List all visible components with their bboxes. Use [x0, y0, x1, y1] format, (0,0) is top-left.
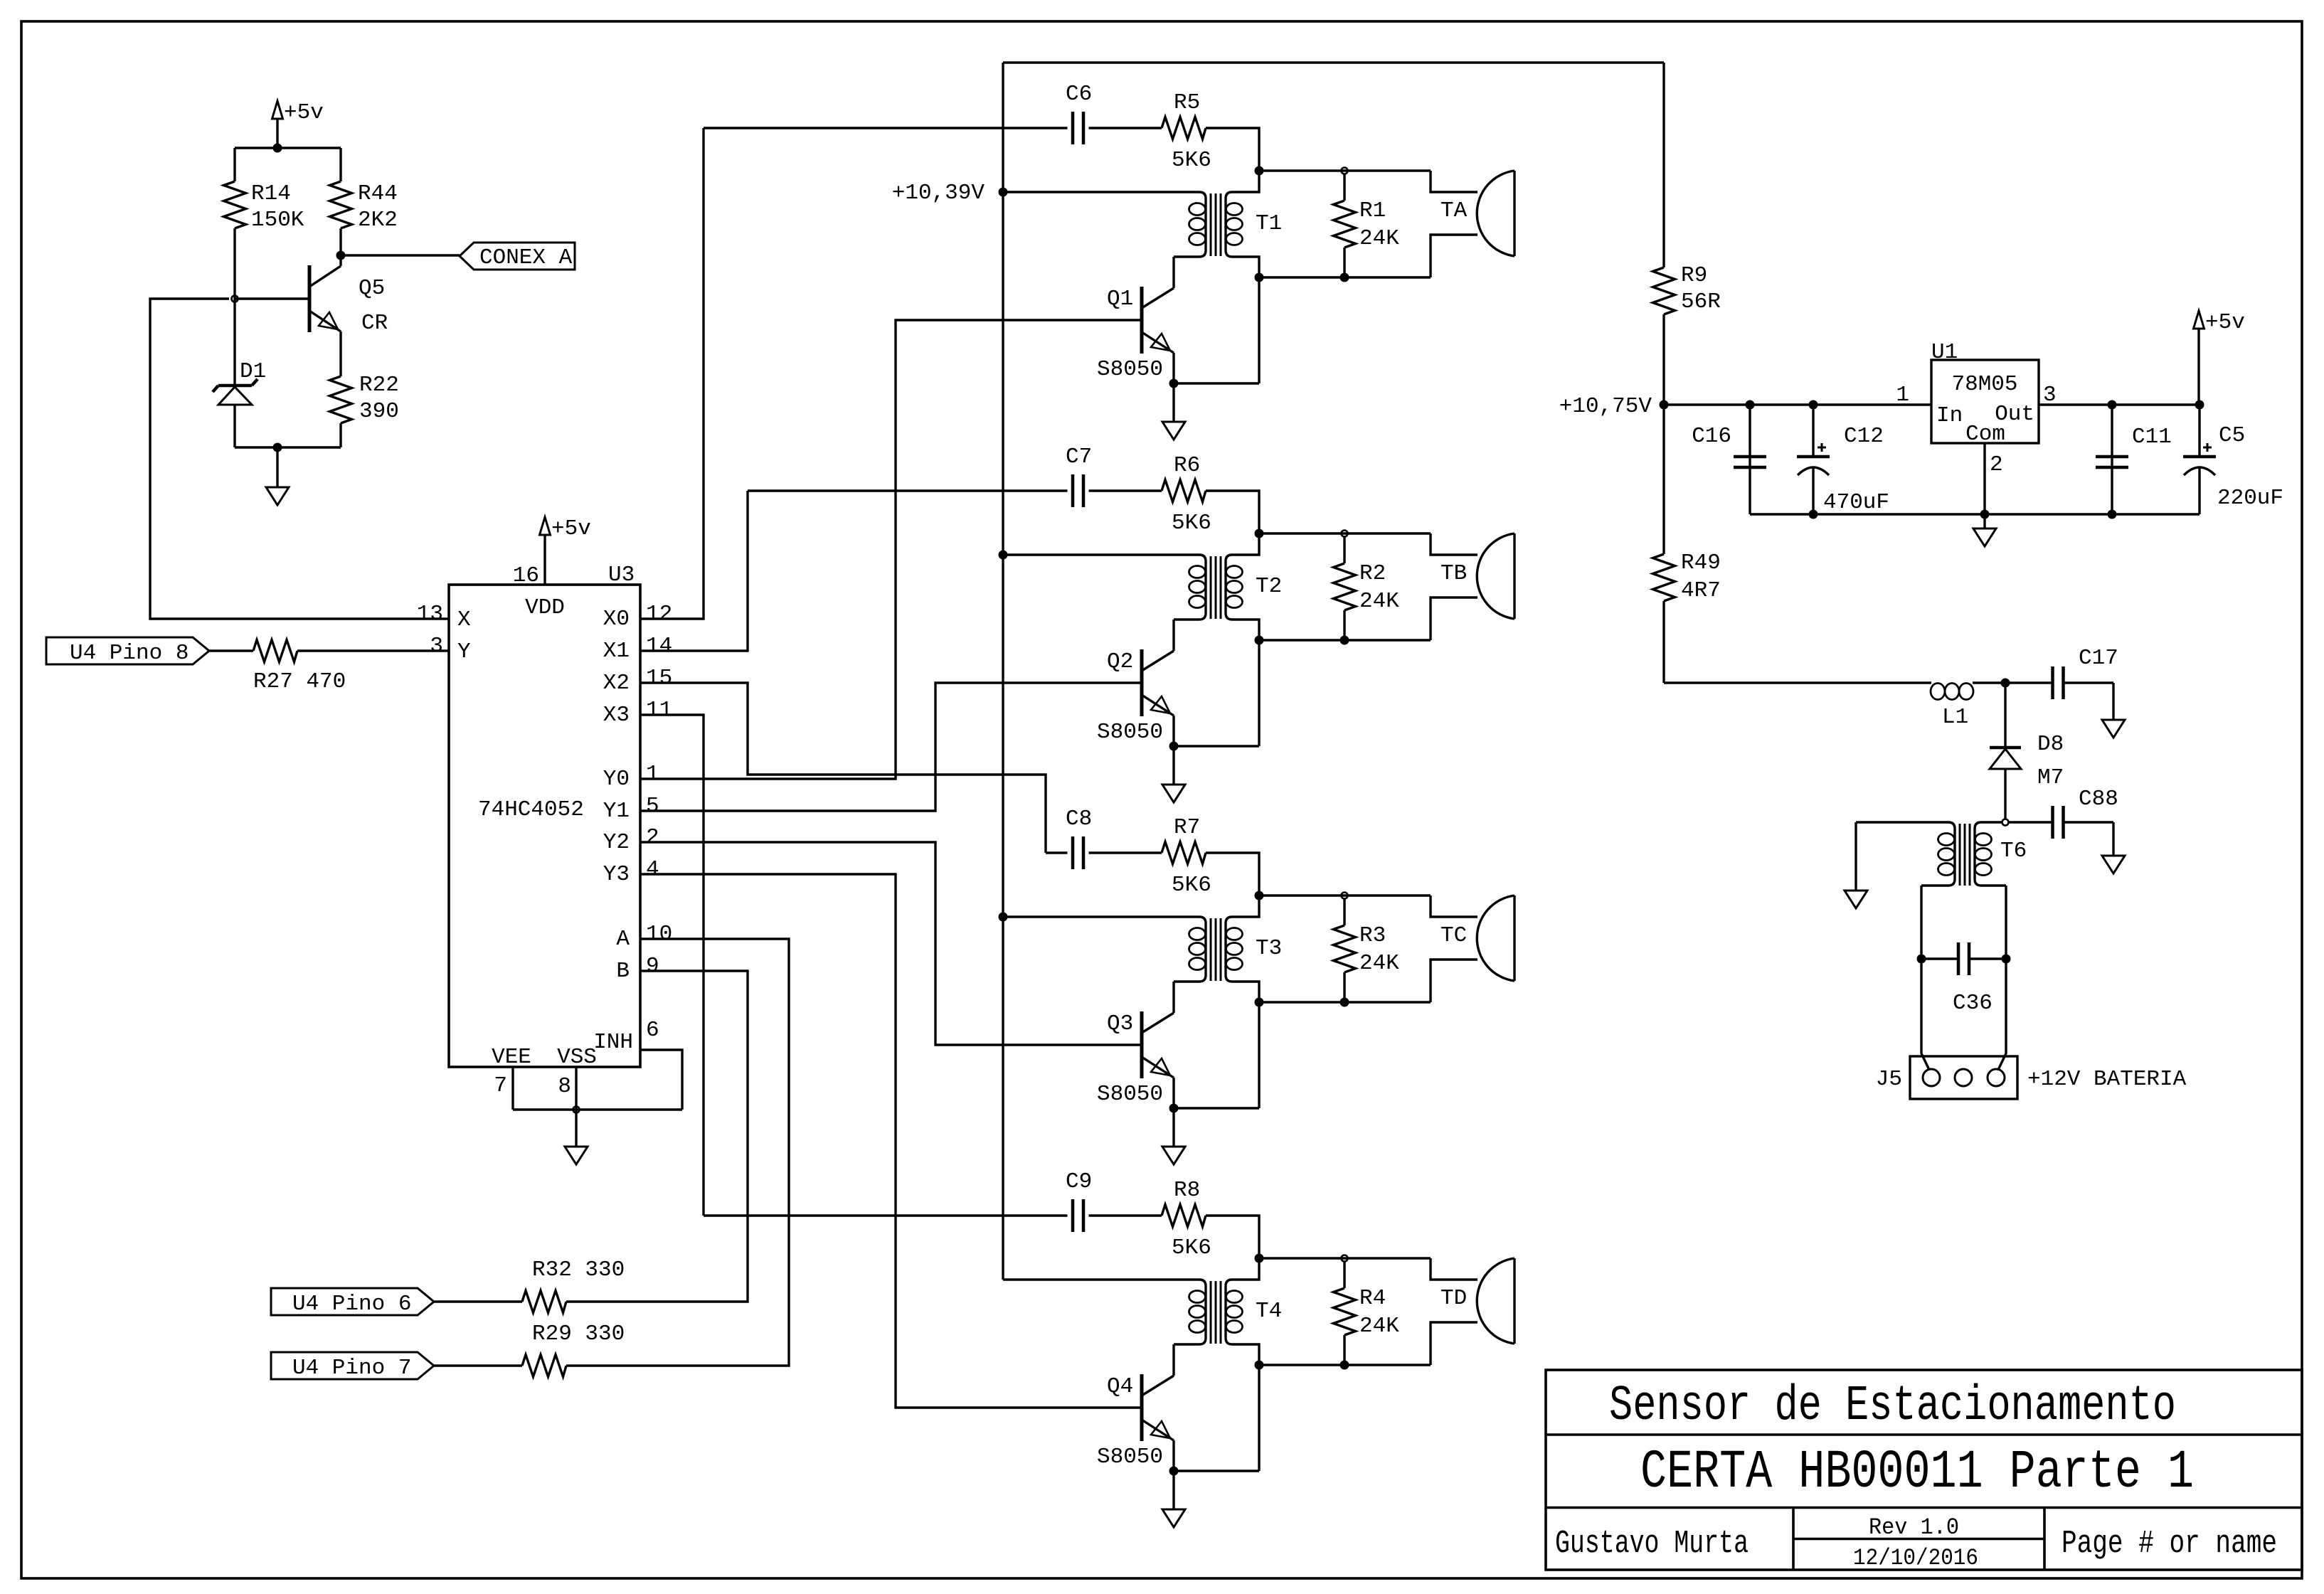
node T1 secondary top: [1255, 166, 1264, 176]
wire secondary top rail: [1259, 532, 1431, 534]
node D8/T6/C88 junction: [2002, 819, 2009, 826]
speaker TC bottom stub: [1431, 960, 1477, 1002]
wire X3 to C9: [640, 715, 704, 1216]
resistor R6 5K6: [1162, 480, 1206, 502]
transformer T2 windings loops: [1189, 566, 1206, 578]
svg-text:R9: R9: [1681, 263, 1707, 288]
svg-text:R6: R6: [1174, 453, 1200, 478]
node Com ground junction: [1980, 510, 1990, 519]
speaker TC: [1513, 896, 1515, 981]
wire base node to IC pin 13: [150, 299, 449, 619]
wire VEE-VSS-INH ground net: [513, 1108, 682, 1110]
svg-text:TC: TC: [1440, 923, 1467, 948]
svg-text:10: 10: [646, 922, 672, 947]
svg-text:A: A: [616, 927, 630, 952]
node VSS junction: [573, 1107, 580, 1113]
wire R5 to transformer: [1206, 128, 1259, 171]
wire R6 to transformer: [1206, 491, 1259, 533]
svg-text:R29 330: R29 330: [532, 1322, 625, 1346]
svg-text:Sensor de Estacionamento: Sensor de Estacionamento: [1609, 1378, 2176, 1435]
capacitor C6: [1071, 112, 1075, 144]
wire X0 to C6: [640, 128, 704, 619]
svg-text:Gustavo Murta: Gustavo Murta: [1555, 1526, 1749, 1562]
svg-text:2: 2: [1990, 452, 2003, 477]
svg-text:TD: TD: [1440, 1286, 1467, 1311]
wire bus top link to R9: [1003, 61, 1664, 63]
resistor R22 390: [339, 375, 341, 376]
svg-text:CR: CR: [361, 311, 388, 336]
zener diode D1: [233, 299, 235, 386]
svg-text:5K6: 5K6: [1172, 1236, 1211, 1260]
capacitor C5 220uF: [2198, 405, 2200, 457]
svg-text:T1: T1: [1256, 211, 1282, 236]
resistor R29 330: [522, 1355, 566, 1377]
transistor Q5 CR: [308, 265, 312, 332]
node bus T3 feed: [999, 913, 1008, 922]
wire Y3 to Q4 base: [640, 874, 1140, 1408]
node Q4 emitter junction: [1169, 1467, 1179, 1476]
svg-text:C9: C9: [1066, 1169, 1092, 1194]
resistor R32 330: [522, 1291, 566, 1313]
svg-text:74HC4052: 74HC4052: [478, 797, 584, 822]
transistor Q2 S8050: [1140, 649, 1144, 716]
ground regulator: [1983, 514, 1985, 528]
speaker TD top stub: [1431, 1258, 1477, 1280]
wire Q1 emitter rail: [1174, 382, 1259, 384]
svg-text:Y0: Y0: [603, 767, 630, 792]
capacitor C16: [1749, 405, 1751, 514]
wire ground rail: [1750, 513, 2200, 515]
svg-text:11: 11: [646, 698, 672, 723]
transformer T4 core: [1210, 1281, 1212, 1344]
node Q3 emitter junction: [1169, 1104, 1179, 1113]
svg-text:U1: U1: [1931, 340, 1958, 365]
svg-text:C11: C11: [2132, 425, 2172, 450]
svg-text:5: 5: [646, 794, 659, 819]
svg-text:VSS: VSS: [557, 1045, 597, 1070]
svg-text:470uF: 470uF: [1823, 490, 1889, 515]
wire C6 input: [704, 127, 1068, 129]
wire C7 to R6: [1089, 489, 1162, 492]
svg-text:Q1: Q1: [1107, 287, 1133, 312]
svg-text:C7: C7: [1066, 445, 1092, 469]
node R1 top junction: [1342, 168, 1348, 174]
flag U4 Pino 8: [46, 637, 209, 664]
wire +10,39V bus vertical: [1002, 63, 1004, 1280]
transistor Q3 S8050: [1140, 1011, 1144, 1078]
wire X2 to C8: [640, 683, 1046, 853]
node C12 bottom: [1809, 510, 1818, 519]
capacitor C8: [1071, 836, 1075, 869]
wire to CONEX A flag: [341, 254, 460, 256]
svg-text:C8: C8: [1066, 807, 1092, 831]
wire secondary top rail: [1259, 169, 1431, 171]
wire Y1 to Q2 base: [640, 683, 1140, 811]
node L1/D8/C17 junction: [2001, 679, 2010, 688]
wire VSS stub: [575, 1067, 577, 1110]
svg-text:15: 15: [646, 666, 672, 691]
wire R49 to L1: [1664, 681, 1931, 684]
wire regulator Com pin 2: [1983, 443, 1985, 514]
node C16 top: [1746, 400, 1755, 410]
node Q1 emitter junction: [1169, 379, 1179, 388]
svg-text:Y: Y: [457, 639, 471, 664]
wire T6 left leg: [1920, 886, 1922, 959]
wire Y0 to Q1 base: [640, 320, 1140, 779]
svg-text:R27 470: R27 470: [253, 669, 346, 694]
transformer T4 secondary winding: [1226, 1258, 1259, 1365]
svg-text:2: 2: [646, 825, 659, 850]
svg-text:R7: R7: [1174, 815, 1200, 840]
wire R27 to pin Y: [297, 649, 449, 652]
svg-text:24K: 24K: [1359, 589, 1399, 614]
wire C7 input: [748, 489, 1068, 492]
svg-text:+12V BATERIA: +12V BATERIA: [2027, 1067, 2187, 1092]
wire T6 right leg: [2005, 886, 2007, 959]
svg-text:T2: T2: [1256, 574, 1282, 599]
wire R8 to transformer: [1206, 1216, 1259, 1258]
node T3 secondary top: [1255, 891, 1264, 900]
speaker TD bottom stub: [1431, 1322, 1477, 1365]
node Q5 collector / CONEX A: [336, 251, 346, 260]
node C36 right: [2002, 955, 2011, 964]
svg-text:C12: C12: [1844, 424, 1884, 449]
svg-text:X3: X3: [603, 703, 630, 728]
svg-text:4: 4: [646, 857, 659, 882]
svg-text:R1: R1: [1359, 198, 1386, 223]
wire flag to R32: [434, 1300, 522, 1302]
resistor R2 24K: [1343, 536, 1345, 563]
svg-text:C36: C36: [1953, 991, 1993, 1016]
svg-text:Rev 1.0: Rev 1.0: [1869, 1514, 1959, 1541]
svg-text:R22: R22: [359, 373, 399, 398]
svg-text:C17: C17: [2079, 646, 2118, 671]
svg-text:13: 13: [417, 602, 443, 627]
svg-text:9: 9: [646, 954, 659, 979]
node C12 top: [1809, 400, 1818, 410]
transformer T6 secondary: [1975, 822, 2006, 886]
node bus T1 feed: [999, 188, 1008, 197]
svg-text:5K6: 5K6: [1172, 148, 1211, 173]
transformer T1 windings loops: [1189, 203, 1206, 216]
wire C8 input: [1046, 851, 1068, 854]
node +5v rail junction: [273, 144, 282, 153]
ground IC supply: [575, 1110, 577, 1147]
speaker TB: [1513, 533, 1515, 619]
svg-text:Y1: Y1: [603, 799, 630, 824]
node T3 secondary bottom: [1340, 998, 1349, 1007]
svg-text:CONEX A: CONEX A: [479, 245, 573, 270]
speaker TA: [1513, 171, 1515, 256]
svg-text:2K2: 2K2: [358, 208, 398, 233]
transformer T2 core: [1210, 556, 1212, 619]
svg-text:R32 330: R32 330: [532, 1258, 625, 1282]
capacitor C9: [1071, 1199, 1075, 1232]
node C36 left: [1917, 955, 1926, 964]
svg-text:D1: D1: [240, 359, 266, 384]
svg-text:B: B: [616, 959, 630, 984]
wire bottom rail D1/R22: [235, 446, 341, 448]
svg-text:56R: 56R: [1681, 289, 1721, 314]
svg-text:Q2: Q2: [1107, 649, 1133, 674]
resistor R27 470: [253, 640, 297, 662]
svg-text:INH: INH: [593, 1030, 633, 1055]
svg-text:R4: R4: [1359, 1286, 1386, 1311]
svg-text:S8050: S8050: [1097, 1082, 1163, 1107]
wire to J5 pin 1: [1921, 959, 1929, 1070]
resistor R44 2K2: [339, 148, 341, 181]
wire INH loop: [640, 1050, 682, 1110]
wire secondary bottom rail: [1259, 1001, 1431, 1003]
wire C9 input: [704, 1214, 1068, 1216]
power +5v VDD pin 16: [540, 517, 551, 535]
resistor R5 5K6: [1162, 117, 1206, 139]
svg-text:TB: TB: [1440, 561, 1467, 586]
ground Q1 emitter: [1172, 383, 1174, 422]
svg-text:C5: C5: [2219, 423, 2245, 448]
svg-text:78M05: 78M05: [1951, 372, 2017, 397]
power +5v (Q5 block): [272, 101, 283, 119]
svg-text:12: 12: [646, 602, 672, 627]
node R2 top junction: [1342, 531, 1348, 537]
svg-text:U4 Pino 8: U4 Pino 8: [70, 641, 189, 666]
svg-text:R14: R14: [251, 181, 291, 206]
ground T6 primary: [1855, 822, 1857, 891]
wire regulator Out to +5v: [2039, 403, 2200, 405]
capacitor C7: [1071, 474, 1075, 507]
svg-text:C6: C6: [1066, 82, 1092, 107]
svg-text:U4 Pino 6: U4 Pino 6: [292, 1292, 411, 1317]
svg-text:R44: R44: [358, 181, 398, 206]
capacitor C11: [2111, 405, 2113, 514]
wire VEE stub: [511, 1067, 514, 1110]
wire secondary bottom rail: [1259, 276, 1431, 278]
svg-text:7: 7: [494, 1073, 507, 1098]
svg-text:M7: M7: [2037, 765, 2064, 790]
wire Q2 emitter rail: [1174, 745, 1259, 747]
svg-text:CERTA HB00011 Parte 1: CERTA HB00011 Parte 1: [1640, 1442, 2194, 1503]
wire C6 to R5: [1089, 127, 1162, 129]
resistor R49 4R7: [1662, 405, 1665, 554]
svg-text:Y3: Y3: [603, 862, 630, 887]
svg-text:24K: 24K: [1359, 1314, 1399, 1339]
svg-text:D8: D8: [2037, 732, 2064, 757]
speaker TA bottom stub: [1431, 235, 1477, 277]
transformer T3 primary: [1003, 917, 1206, 982]
svg-text:5K6: 5K6: [1172, 873, 1211, 898]
svg-text:X2: X2: [603, 671, 630, 696]
svg-text:+10,39V: +10,39V: [892, 181, 985, 206]
wire Y2 to Q3 base: [640, 842, 1140, 1045]
svg-text:+10,75V: +10,75V: [1559, 394, 1652, 419]
wire +10,75V to regulator In: [1664, 403, 1931, 405]
transistor Q4 S8050: [1140, 1374, 1144, 1441]
connector J5 +12V BATERIA: [1910, 1056, 2017, 1099]
transformer T4 windings loops: [1189, 1291, 1206, 1303]
inductor L1: [1931, 684, 1945, 700]
ground C88: [2112, 822, 2114, 856]
ground below Q5 block: [276, 447, 278, 487]
svg-text:Y2: Y2: [603, 830, 630, 855]
diode D8 M7: [2004, 683, 2006, 748]
transformer T6 core: [1959, 824, 1961, 886]
transistor Q1 S8050: [1140, 287, 1144, 354]
svg-text:5K6: 5K6: [1172, 511, 1211, 536]
svg-text:16: 16: [513, 563, 539, 588]
transformer T1 primary: [1003, 192, 1206, 257]
svg-text:C88: C88: [2079, 787, 2118, 812]
transformer T1 secondary winding: [1226, 171, 1259, 277]
svg-text:VDD: VDD: [525, 595, 565, 620]
node bus T2 feed: [999, 551, 1008, 560]
title block outline: [1546, 1370, 2302, 1570]
svg-text:S8050: S8050: [1097, 1445, 1163, 1470]
svg-text:T6: T6: [2000, 839, 2027, 864]
svg-text:+5v: +5v: [284, 100, 324, 125]
svg-text:L1: L1: [1942, 705, 1968, 730]
flag U4 Pino 6: [271, 1288, 434, 1315]
svg-text:150K: 150K: [251, 208, 304, 233]
node CONEX A flag: [460, 243, 575, 270]
svg-text:S8050: S8050: [1097, 357, 1163, 382]
node T1 secondary bottom: [1340, 273, 1349, 282]
resistor R9 56R: [1662, 63, 1665, 267]
resistor R7 5K6: [1162, 842, 1206, 864]
node C11 bottom: [2108, 510, 2117, 519]
transformer T4 primary: [1003, 1280, 1206, 1344]
svg-text:In: In: [1936, 403, 1963, 428]
svg-text:+5v: +5v: [2205, 310, 2245, 335]
svg-text:U3: U3: [608, 563, 635, 588]
node T4 secondary bottom: [1340, 1361, 1349, 1370]
svg-text:Q3: Q3: [1107, 1011, 1133, 1036]
svg-text:U4 Pino 7: U4 Pino 7: [292, 1356, 411, 1381]
svg-text:14: 14: [646, 634, 672, 659]
transformer T6 winding loops: [1938, 834, 1955, 846]
transformer T2 primary: [1003, 555, 1206, 620]
svg-text:T3: T3: [1256, 936, 1282, 961]
svg-text:12/10/2016: 12/10/2016: [1853, 1545, 1978, 1571]
wire secondary top rail: [1259, 894, 1431, 896]
wire flag to R27: [209, 649, 253, 652]
wire C8 to R7: [1089, 851, 1162, 854]
speaker TC top stub: [1431, 896, 1477, 917]
wire secondary bottom rail: [1259, 1364, 1431, 1366]
wire Q3 emitter rail: [1174, 1107, 1259, 1109]
node T2 secondary bottom: [1340, 636, 1349, 645]
wire flag to R29: [434, 1364, 522, 1366]
svg-text:J5: J5: [1876, 1067, 1902, 1092]
svg-text:VEE: VEE: [492, 1045, 531, 1070]
svg-text:1: 1: [646, 762, 659, 787]
svg-text:R49: R49: [1681, 551, 1721, 575]
svg-text:X1: X1: [603, 639, 630, 664]
svg-text:Q5: Q5: [359, 276, 385, 301]
svg-text:Q4: Q4: [1107, 1374, 1133, 1399]
flag U4 Pino 7: [271, 1352, 434, 1379]
svg-text:220uF: 220uF: [2217, 486, 2283, 511]
power +5v output: [2194, 311, 2204, 329]
capacitor C36: [1921, 957, 1958, 960]
svg-text:R8: R8: [1174, 1178, 1200, 1203]
speaker TD: [1513, 1258, 1515, 1344]
IC U3 74HC4052 body: [449, 585, 640, 1067]
wire to J5 pin 3: [1998, 959, 2006, 1070]
ground Q2 emitter: [1172, 746, 1174, 785]
wire secondary top rail: [1259, 1257, 1431, 1259]
transformer T6 primary: [1856, 822, 1955, 886]
speaker TA top stub: [1431, 171, 1477, 192]
svg-text:24K: 24K: [1359, 226, 1399, 251]
resistor R14 150K: [233, 148, 235, 181]
svg-text:+5v: +5v: [551, 516, 591, 541]
svg-text:8: 8: [558, 1074, 571, 1099]
svg-text:4R7: 4R7: [1681, 578, 1721, 603]
svg-text:Com: Com: [1965, 422, 2005, 447]
resistor R8 5K6: [1162, 1205, 1206, 1227]
node Q5 base junction: [232, 296, 238, 302]
svg-text:24K: 24K: [1359, 951, 1399, 976]
speaker TB top stub: [1431, 533, 1477, 555]
transformer T2 secondary winding: [1226, 533, 1259, 640]
svg-text:C16: C16: [1692, 424, 1731, 449]
wire Q5 base node: [235, 297, 309, 299]
wire A to R29: [566, 939, 789, 1366]
svg-text:390: 390: [359, 399, 399, 424]
capacitor C88: [2009, 821, 2053, 823]
svg-text:R5: R5: [1174, 90, 1200, 115]
regulator U1 78M05: [1931, 360, 2039, 443]
svg-text:X0: X0: [603, 607, 630, 632]
node R3 top junction: [1342, 893, 1348, 899]
resistor R4 24K: [1343, 1261, 1345, 1288]
svg-text:X: X: [457, 607, 471, 632]
node T2 secondary top: [1255, 529, 1264, 538]
ground Q3 emitter: [1172, 1108, 1174, 1147]
svg-text:3: 3: [430, 634, 443, 659]
wire X1 to C7: [640, 491, 748, 651]
speaker TB bottom stub: [1431, 597, 1477, 640]
svg-text:S8050: S8050: [1097, 720, 1163, 745]
svg-text:R3: R3: [1359, 923, 1386, 948]
ground Q4 emitter: [1172, 1471, 1174, 1509]
svg-text:TA: TA: [1440, 198, 1468, 223]
node R4 top junction: [1342, 1255, 1348, 1262]
resistor R3 24K: [1343, 898, 1345, 925]
transformer T3 windings loops: [1189, 928, 1206, 940]
transformer T3 secondary winding: [1226, 896, 1259, 1002]
node Q2 emitter junction: [1169, 742, 1179, 751]
wire Q4 emitter rail: [1174, 1470, 1259, 1472]
wire secondary bottom rail: [1259, 639, 1431, 641]
transformer T3 core: [1210, 918, 1212, 981]
svg-text:6: 6: [646, 1018, 659, 1043]
wire B to R32: [566, 971, 748, 1302]
resistor R1 24K: [1343, 174, 1345, 201]
node T4 secondary top: [1255, 1254, 1264, 1263]
capacitor C12 470uF: [1812, 405, 1814, 457]
svg-text:T4: T4: [1256, 1299, 1282, 1324]
wire C9 to R8: [1089, 1214, 1162, 1216]
svg-text:R2: R2: [1359, 561, 1386, 586]
node bottom rail junction: [273, 443, 282, 452]
transformer T1 core: [1210, 193, 1212, 256]
svg-text:1: 1: [1896, 383, 1909, 408]
capacitor C17: [2005, 681, 2053, 684]
node C11 top: [2108, 400, 2117, 410]
svg-text:Page # or name: Page # or name: [2062, 1526, 2277, 1562]
node C5 top: [2195, 400, 2204, 410]
